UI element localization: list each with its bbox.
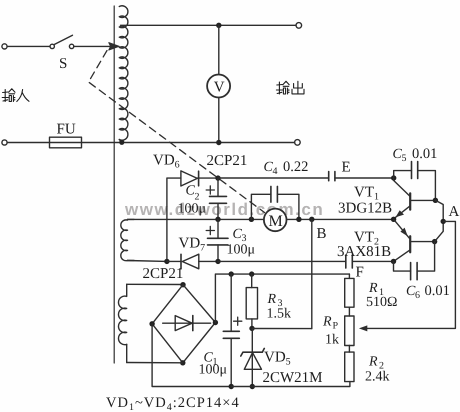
junction motor right — [296, 217, 301, 222]
diode VD7 — [167, 254, 218, 269]
wire fuse to transformer / output line lower — [82, 142, 295, 144]
junction C1 top — [229, 271, 234, 276]
junction VD5 bottom — [250, 384, 255, 389]
svg-text:100μ: 100μ — [227, 243, 256, 258]
C6 feedback loop — [394, 242, 435, 280]
voltmeter V — [207, 75, 230, 98]
junction VD7 cathode node — [164, 259, 169, 264]
junction node A — [441, 219, 446, 224]
wire to fuse — [7, 142, 49, 144]
label 2CP21 (VD7) — [143, 266, 184, 282]
junction node B — [309, 217, 314, 222]
svg-text:4: 4 — [273, 166, 278, 177]
C5 feedback loop — [394, 162, 436, 201]
label R1 510ohm — [366, 281, 397, 310]
label C1 100u — [199, 351, 228, 378]
transistor VT2 — [394, 219, 435, 261]
svg-text:2CP21: 2CP21 — [143, 266, 184, 282]
junction emitters node on middle wire — [391, 217, 396, 222]
svg-text:0.01: 0.01 — [425, 283, 450, 299]
wire top output line — [121, 24, 297, 26]
wire winding to VD7 — [128, 260, 167, 263]
svg-text:R: R — [368, 281, 378, 296]
svg-text:2CP21: 2CP21 — [207, 153, 248, 169]
wire node B down — [311, 219, 313, 328]
svg-text:1k: 1k — [325, 333, 339, 348]
capacitor C1 — [223, 274, 242, 386]
diode VD6 — [181, 171, 216, 186]
resistor R3 — [246, 274, 257, 328]
label 输出 (output) — [276, 81, 304, 94]
label 2CW21M — [263, 370, 323, 386]
svg-text:S: S — [59, 56, 67, 72]
svg-text:R: R — [322, 315, 332, 330]
wire VD7 node to F cap — [218, 260, 346, 262]
label 3DG12B — [338, 201, 392, 217]
junction VT2 base node — [391, 259, 396, 264]
junction C3 bottom — [215, 259, 220, 264]
svg-text:E: E — [342, 160, 351, 176]
svg-text:B: B — [317, 226, 327, 242]
bridge rectifier VD1-VD4 diamond — [152, 285, 215, 363]
label VT2 — [354, 230, 379, 248]
svg-text:100μ: 100μ — [199, 363, 228, 378]
label VT1 — [354, 185, 379, 203]
dashed link wiper to motor — [89, 51, 265, 213]
junction VT2 collector — [432, 239, 437, 244]
wire winding to bridge top — [127, 283, 183, 285]
output terminal top — [296, 23, 302, 29]
left vertical VD6-VD7 — [167, 178, 181, 261]
svg-text:100μ: 100μ — [178, 202, 207, 217]
resistor R2 — [345, 346, 354, 382]
wire A to right edge down to Rp wiper — [367, 221, 456, 328]
wire voltmeter bottom — [218, 98, 220, 143]
label C4 0.22 — [264, 159, 309, 177]
svg-text:1.5k: 1.5k — [267, 307, 292, 322]
junction R3/VD5/B node — [249, 326, 254, 331]
junction VT1 collector — [433, 198, 438, 203]
svg-text:0.01: 0.01 — [412, 146, 437, 162]
wire R3 node to B vertical — [252, 328, 312, 330]
junction bridge bottom vertex — [180, 360, 185, 365]
label R3 1.5k — [267, 292, 292, 322]
svg-text:0.22: 0.22 — [283, 159, 308, 175]
wire bridge right vertex up to + rail — [215, 274, 349, 322]
right rail jog with node A — [435, 200, 444, 241]
junction bridge left vertex — [149, 321, 154, 326]
switch S — [50, 35, 74, 48]
capacitor label C6 0.01 — [406, 283, 450, 301]
label Rp 1k — [322, 315, 339, 348]
wire voltmeter top — [218, 25, 220, 74]
svg-text:R: R — [368, 355, 378, 370]
wire winding bottom to bridge bottom — [127, 362, 183, 364]
label 2CP21 (VD6) — [207, 153, 248, 169]
junction VD6/C2/E-wire — [215, 175, 220, 180]
capacitor C2 — [206, 178, 226, 219]
label node B — [317, 226, 327, 242]
input terminal top — [2, 44, 7, 49]
middle wire (node B rail) — [128, 218, 394, 220]
svg-text:V: V — [214, 80, 225, 96]
ground rail bottom wire — [231, 382, 350, 387]
secondary winding lower — [118, 284, 126, 362]
svg-text:6: 6 — [415, 290, 420, 301]
svg-text:FU: FU — [57, 122, 76, 138]
watermark — [124, 200, 324, 219]
junction bridge right vertex — [213, 320, 218, 325]
zener diode VD5 — [241, 328, 264, 386]
junction primary bottom — [119, 140, 124, 145]
wire input-top to switch — [7, 45, 50, 47]
label VD5 — [264, 350, 291, 368]
potentiometer Rp — [345, 307, 354, 345]
junction bottom wire / voltmeter — [216, 140, 221, 145]
label FU — [57, 122, 76, 138]
label 输入 (input) — [2, 89, 29, 102]
label 3AX81B — [337, 244, 391, 260]
label C2 100u — [178, 184, 207, 217]
junction VT1 base node — [391, 175, 396, 180]
secondary winding upper — [121, 219, 134, 260]
label node F — [356, 265, 364, 281]
transistor VT1 — [394, 178, 436, 219]
svg-text:2CW21M: 2CW21M — [263, 370, 323, 386]
motor phase capacitor loop — [251, 186, 299, 219]
resistor R1 — [345, 274, 354, 307]
junction C1 bottom — [229, 384, 234, 389]
fuse FU — [50, 137, 82, 148]
svg-text:M: M — [269, 213, 283, 230]
capacitor F — [346, 255, 353, 268]
wire E (to C4) — [218, 177, 329, 179]
junction R3 top — [249, 271, 254, 276]
label C3 100u — [227, 227, 256, 258]
wire C4 to VT1 base — [335, 177, 394, 179]
svg-text:2.4k: 2.4k — [365, 370, 390, 385]
output terminal bottom — [295, 140, 301, 146]
Rp wiper arrow — [359, 325, 367, 331]
label VD6 — [153, 153, 180, 171]
caption VD1~VD4:2CP14x4 — [106, 395, 240, 412]
label node A — [449, 204, 460, 220]
wire bridge left vertex to ground rail — [152, 324, 231, 387]
svg-text:VD1~VD4:2CP14×4: VD1~VD4:2CP14×4 — [106, 395, 240, 412]
label R2 2.4k — [365, 355, 390, 385]
svg-text:P: P — [333, 321, 339, 332]
wiper arrow into autotransformer — [109, 43, 119, 50]
transformer core line — [113, 6, 115, 363]
label S — [59, 56, 67, 72]
svg-text:510Ω: 510Ω — [366, 295, 397, 310]
wire switch to wiper arrow — [74, 45, 110, 47]
capacitor C4 — [329, 172, 335, 181]
svg-text:R: R — [267, 292, 277, 307]
motor M — [264, 209, 287, 232]
bridge inner diode symbol — [163, 316, 211, 331]
junction bridge top vertex — [180, 282, 185, 287]
svg-text:A: A — [449, 204, 460, 220]
svg-text:3DG12B: 3DG12B — [338, 201, 392, 217]
capacitor label C5 0.01 — [393, 146, 438, 164]
svg-text:5: 5 — [402, 153, 407, 164]
autotransformer primary winding — [119, 6, 128, 142]
svg-text:3AX81B: 3AX81B — [337, 244, 391, 260]
svg-text:F: F — [356, 265, 364, 281]
label node E — [342, 160, 351, 176]
wire F to VT2 base — [352, 260, 393, 262]
junction motor left — [249, 217, 254, 222]
junction top wire / voltmeter — [216, 23, 221, 28]
label VD7 — [179, 236, 206, 254]
junction C2/C3 on middle wire — [215, 217, 220, 222]
input terminal bottom — [2, 140, 7, 145]
capacitor C3 — [206, 219, 228, 261]
